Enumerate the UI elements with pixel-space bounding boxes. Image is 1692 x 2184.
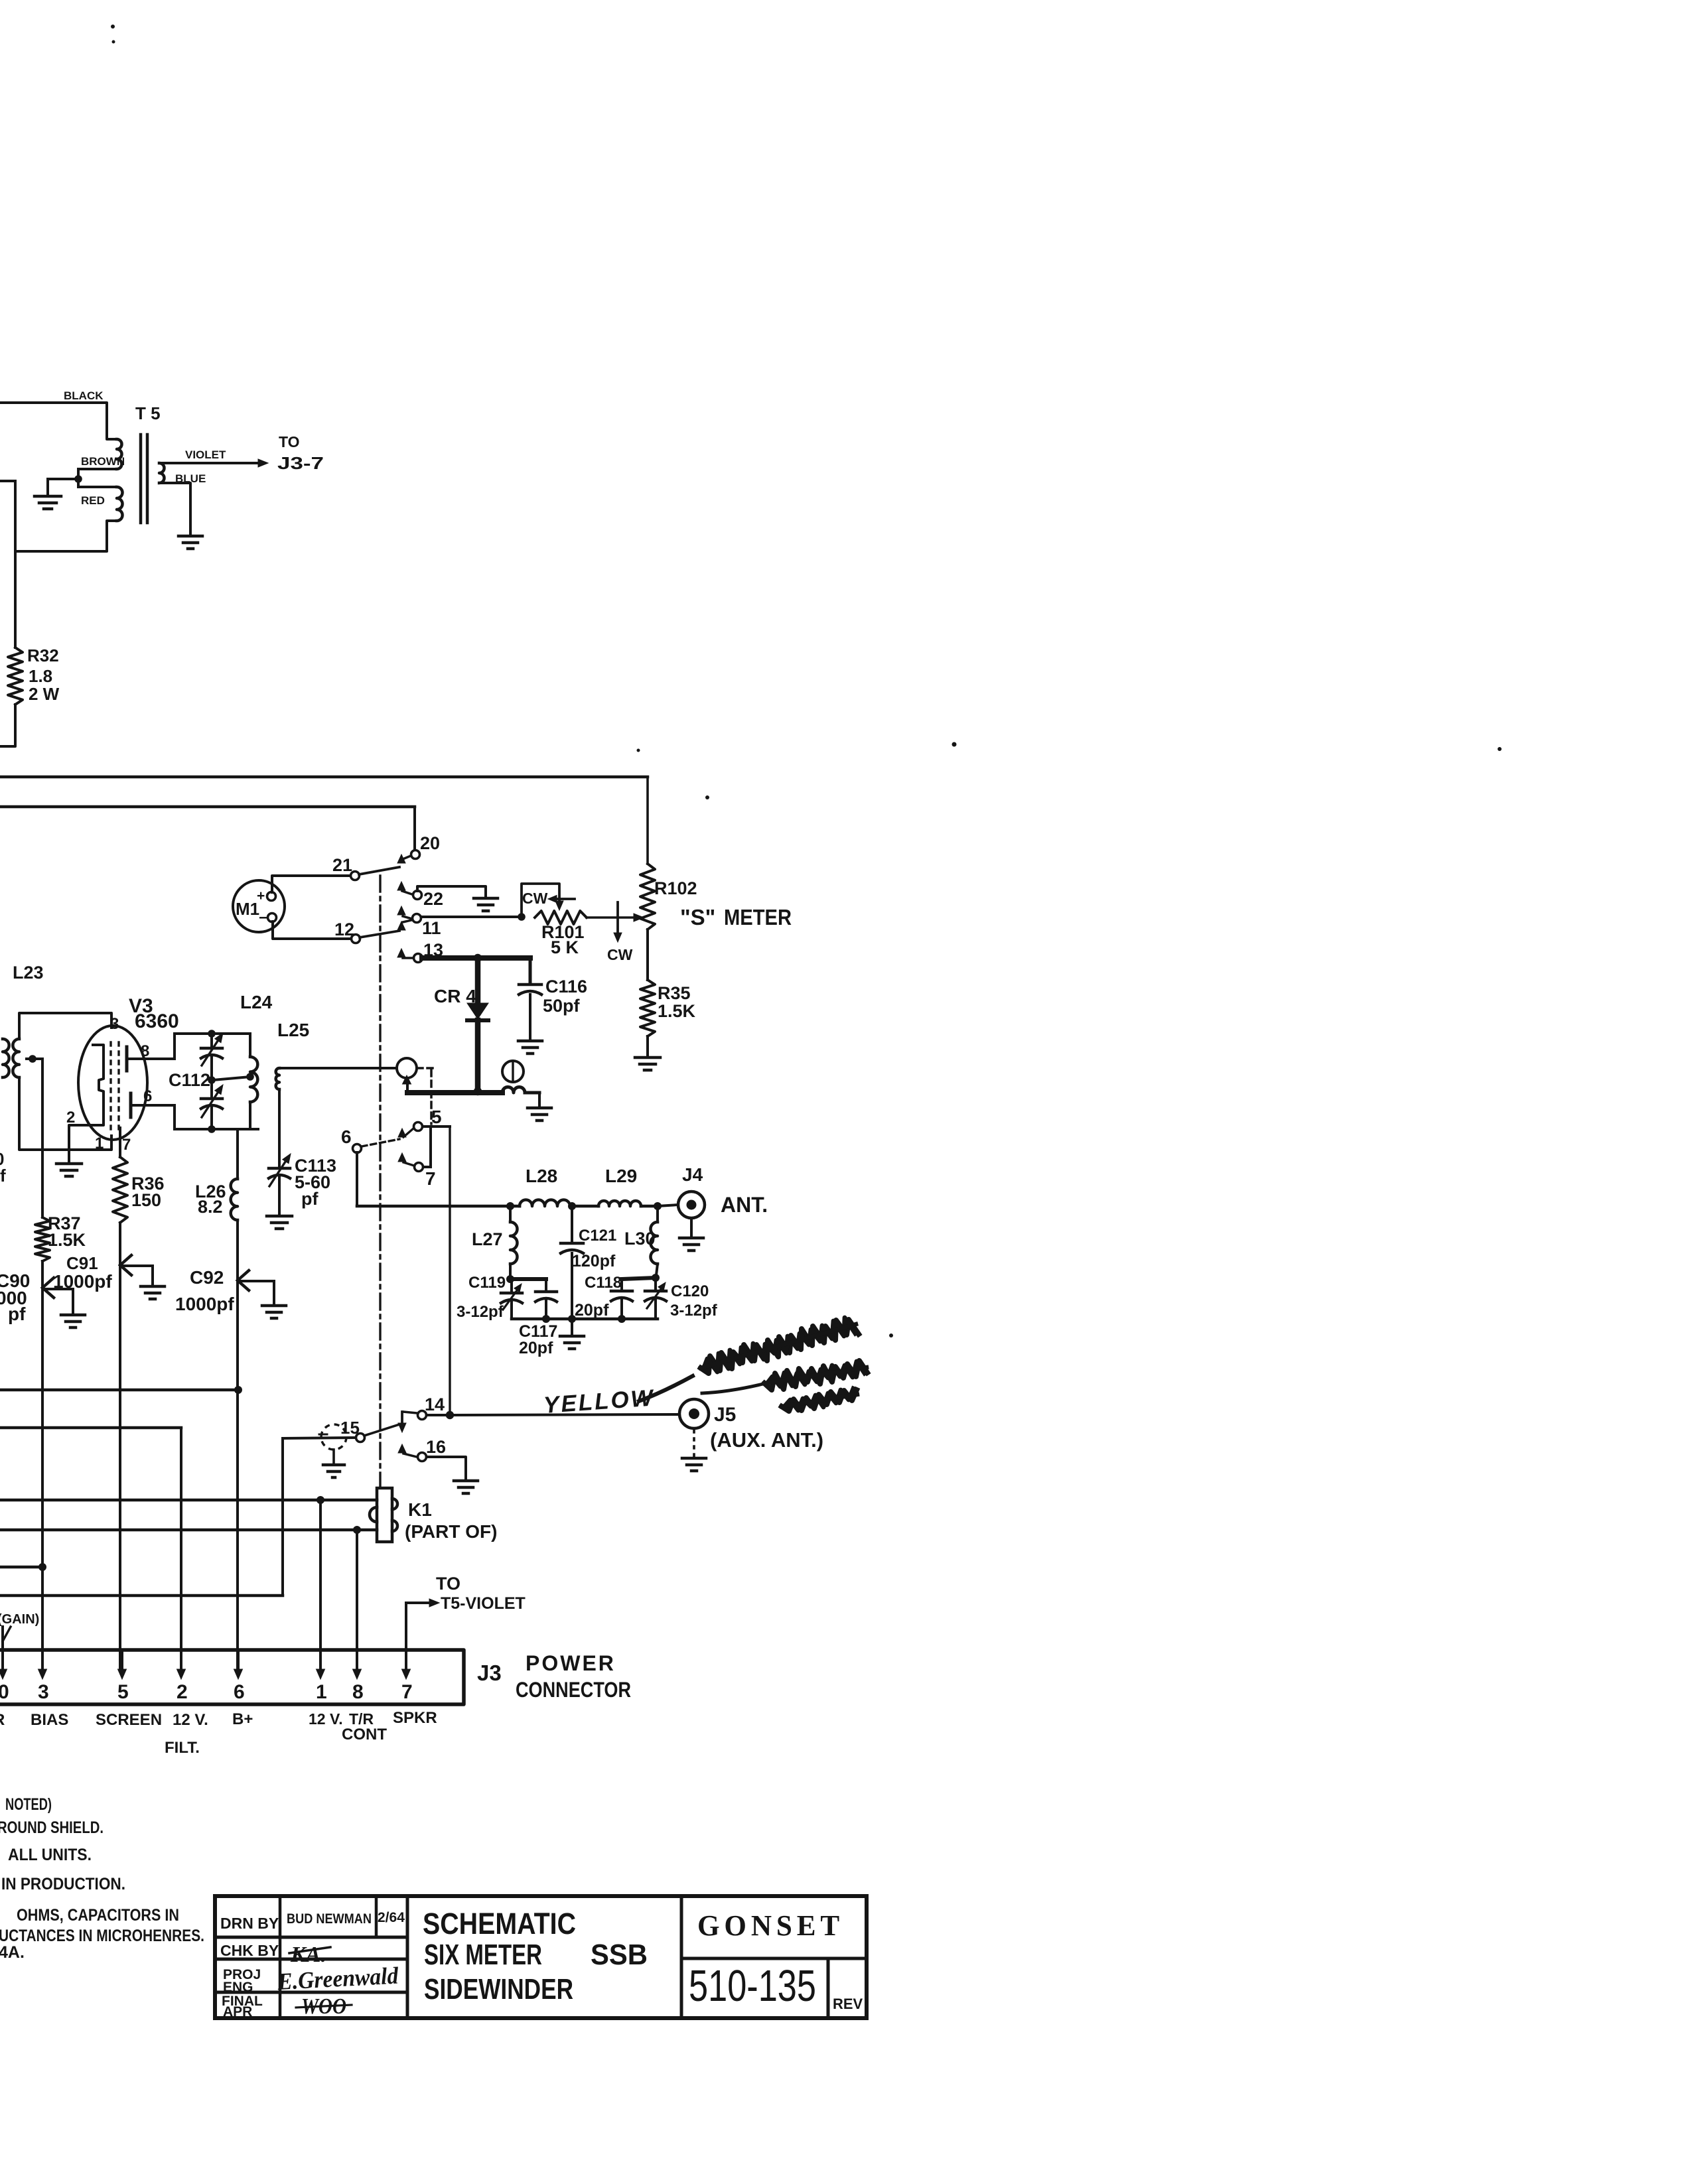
svg-text:L24: L24 bbox=[240, 992, 273, 1012]
svg-text:R102: R102 bbox=[654, 878, 697, 898]
svg-text:150: 150 bbox=[131, 1190, 161, 1210]
svg-text:C119: C119 bbox=[468, 1274, 506, 1292]
svg-text:21: 21 bbox=[332, 855, 352, 875]
svg-text:3: 3 bbox=[110, 1015, 119, 1033]
svg-text:1000pf: 1000pf bbox=[175, 1294, 234, 1314]
svg-text:1: 1 bbox=[316, 1681, 327, 1703]
svg-text:3: 3 bbox=[38, 1681, 49, 1703]
svg-text:120pf: 120pf bbox=[572, 1252, 616, 1270]
svg-text:J4: J4 bbox=[682, 1164, 703, 1185]
svg-text:(GAIN): (GAIN) bbox=[0, 1612, 39, 1627]
svg-text:22: 22 bbox=[423, 889, 443, 909]
svg-text:12 V.: 12 V. bbox=[173, 1711, 208, 1729]
svg-text:TO: TO bbox=[279, 433, 300, 450]
svg-text:7: 7 bbox=[425, 1168, 436, 1189]
svg-text:2: 2 bbox=[176, 1681, 188, 1703]
svg-text:14: 14 bbox=[425, 1395, 445, 1414]
svg-text:ROUND SHIELD.: ROUND SHIELD. bbox=[0, 1818, 104, 1837]
svg-text:CW: CW bbox=[522, 890, 548, 907]
svg-text:CONNECTOR: CONNECTOR bbox=[516, 1678, 631, 1702]
svg-text:0: 0 bbox=[0, 1681, 9, 1703]
svg-text:FILT.: FILT. bbox=[165, 1739, 200, 1757]
svg-text:CONT: CONT bbox=[342, 1726, 387, 1743]
svg-text:NOTED): NOTED) bbox=[5, 1795, 52, 1814]
svg-text:L29: L29 bbox=[605, 1166, 637, 1186]
svg-text:R32: R32 bbox=[27, 646, 59, 665]
svg-text:OHMS, CAPACITORS IN: OHMS, CAPACITORS IN bbox=[17, 1906, 179, 1925]
svg-text:R35: R35 bbox=[658, 983, 691, 1003]
svg-text:REV: REV bbox=[833, 1996, 863, 2012]
svg-text:ENG: ENG bbox=[223, 1980, 253, 1995]
svg-text:SIDEWINDER: SIDEWINDER bbox=[424, 1973, 573, 2006]
svg-text:C112: C112 bbox=[169, 1070, 210, 1090]
svg-text:IN PRODUCTION.: IN PRODUCTION. bbox=[1, 1875, 125, 1893]
svg-text:B+: B+ bbox=[232, 1710, 253, 1728]
svg-text:8: 8 bbox=[352, 1681, 364, 1703]
svg-text:6: 6 bbox=[234, 1681, 245, 1703]
svg-text:510-135: 510-135 bbox=[689, 1961, 816, 2011]
svg-text:GONSET: GONSET bbox=[697, 1909, 844, 1942]
svg-text:7: 7 bbox=[401, 1681, 413, 1703]
svg-text:6: 6 bbox=[341, 1126, 352, 1147]
svg-text:POWER: POWER bbox=[526, 1651, 616, 1675]
svg-text:C91: C91 bbox=[66, 1253, 98, 1273]
svg-text:C118: C118 bbox=[585, 1274, 622, 1292]
svg-text:J3-7: J3-7 bbox=[277, 453, 324, 473]
svg-text:8: 8 bbox=[141, 1042, 149, 1060]
svg-text:K1: K1 bbox=[408, 1499, 432, 1520]
svg-text:METER: METER bbox=[724, 905, 792, 929]
svg-text:20pf: 20pf bbox=[575, 1301, 609, 1320]
svg-text:TO: TO bbox=[436, 1574, 460, 1594]
svg-text:1: 1 bbox=[95, 1134, 104, 1152]
svg-text:VIOLET: VIOLET bbox=[185, 448, 226, 461]
svg-text:f: f bbox=[0, 1166, 6, 1186]
svg-text:L25: L25 bbox=[277, 1020, 309, 1040]
svg-text:CHK BY: CHK BY bbox=[220, 1942, 279, 1959]
svg-text:20pf: 20pf bbox=[519, 1339, 553, 1357]
svg-text:pf: pf bbox=[8, 1304, 26, 1324]
svg-text:CR 4: CR 4 bbox=[434, 986, 476, 1006]
svg-text:SIX METER: SIX METER bbox=[424, 1939, 542, 1971]
svg-text:2: 2 bbox=[66, 1109, 75, 1126]
svg-text:C116: C116 bbox=[545, 977, 587, 996]
svg-text:BLACK: BLACK bbox=[64, 389, 104, 402]
svg-text:ALL UNITS.: ALL UNITS. bbox=[8, 1846, 92, 1864]
svg-text:RED: RED bbox=[81, 494, 105, 507]
svg-text:SPKR: SPKR bbox=[393, 1709, 437, 1727]
svg-text:7: 7 bbox=[122, 1136, 131, 1154]
svg-text:11: 11 bbox=[422, 918, 441, 938]
svg-text:1.8: 1.8 bbox=[29, 666, 52, 686]
svg-text:L30: L30 bbox=[624, 1229, 656, 1249]
svg-text:SCHEMATIC: SCHEMATIC bbox=[423, 1907, 576, 1941]
svg-text:50pf: 50pf bbox=[543, 996, 581, 1016]
svg-text:4A.: 4A. bbox=[0, 1943, 25, 1962]
svg-text:BIAS: BIAS bbox=[31, 1711, 68, 1729]
svg-text:SCREEN: SCREEN bbox=[96, 1711, 162, 1729]
svg-text:BROWN: BROWN bbox=[81, 455, 125, 468]
svg-text:5: 5 bbox=[117, 1681, 129, 1703]
svg-text:(PART OF): (PART OF) bbox=[405, 1521, 497, 1542]
svg-text:5: 5 bbox=[431, 1107, 442, 1127]
svg-text:5 K: 5 K bbox=[551, 937, 579, 957]
svg-text:(AUX. ANT.): (AUX. ANT.) bbox=[710, 1428, 823, 1452]
svg-text:1.5K: 1.5K bbox=[48, 1230, 86, 1250]
svg-text:+: + bbox=[257, 888, 265, 904]
svg-text:J5: J5 bbox=[714, 1404, 736, 1426]
svg-text:12: 12 bbox=[334, 920, 354, 939]
svg-text:8.2: 8.2 bbox=[198, 1197, 223, 1217]
svg-text:2/64: 2/64 bbox=[378, 1910, 405, 1925]
svg-text:L27: L27 bbox=[472, 1229, 503, 1249]
svg-text:C120: C120 bbox=[671, 1282, 709, 1300]
svg-text:R: R bbox=[0, 1711, 5, 1729]
svg-text:L23: L23 bbox=[13, 963, 44, 983]
svg-text:20: 20 bbox=[420, 833, 440, 853]
svg-text:T 5: T 5 bbox=[135, 403, 161, 423]
svg-text:3-12pf: 3-12pf bbox=[457, 1303, 504, 1321]
svg-text:CW: CW bbox=[607, 946, 633, 963]
svg-text:pf: pf bbox=[301, 1189, 318, 1209]
svg-text:6360: 6360 bbox=[135, 1010, 179, 1032]
svg-text:C92: C92 bbox=[190, 1267, 224, 1288]
svg-text:−: − bbox=[259, 909, 267, 926]
svg-text:1000pf: 1000pf bbox=[53, 1271, 112, 1292]
svg-text:BUD NEWMAN: BUD NEWMAN bbox=[287, 1911, 372, 1927]
svg-text:KA.: KA. bbox=[290, 1943, 326, 1967]
svg-text:C121: C121 bbox=[579, 1227, 616, 1245]
svg-text:J3: J3 bbox=[477, 1661, 502, 1685]
svg-text:APR: APR bbox=[223, 2004, 252, 2019]
svg-text:M1: M1 bbox=[236, 899, 259, 919]
svg-text:DRN BY: DRN BY bbox=[220, 1915, 279, 1932]
svg-text:3-12pf: 3-12pf bbox=[670, 1302, 718, 1320]
svg-text:L28: L28 bbox=[526, 1166, 557, 1186]
svg-text:6: 6 bbox=[143, 1087, 152, 1105]
svg-text:1.5K: 1.5K bbox=[658, 1001, 696, 1021]
svg-text:12 V.: 12 V. bbox=[309, 1710, 343, 1728]
svg-text:2 W: 2 W bbox=[29, 684, 60, 704]
svg-text:ANT.: ANT. bbox=[721, 1193, 768, 1217]
svg-text:C117: C117 bbox=[519, 1322, 557, 1341]
svg-text:T5-VIOLET: T5-VIOLET bbox=[441, 1594, 526, 1613]
svg-text:UCTANCES IN MICROHENRES.: UCTANCES IN MICROHENRES. bbox=[0, 1927, 204, 1945]
svg-text:"S": "S" bbox=[680, 905, 715, 929]
svg-text:16: 16 bbox=[426, 1437, 446, 1457]
svg-text:SSB: SSB bbox=[591, 1939, 648, 1971]
